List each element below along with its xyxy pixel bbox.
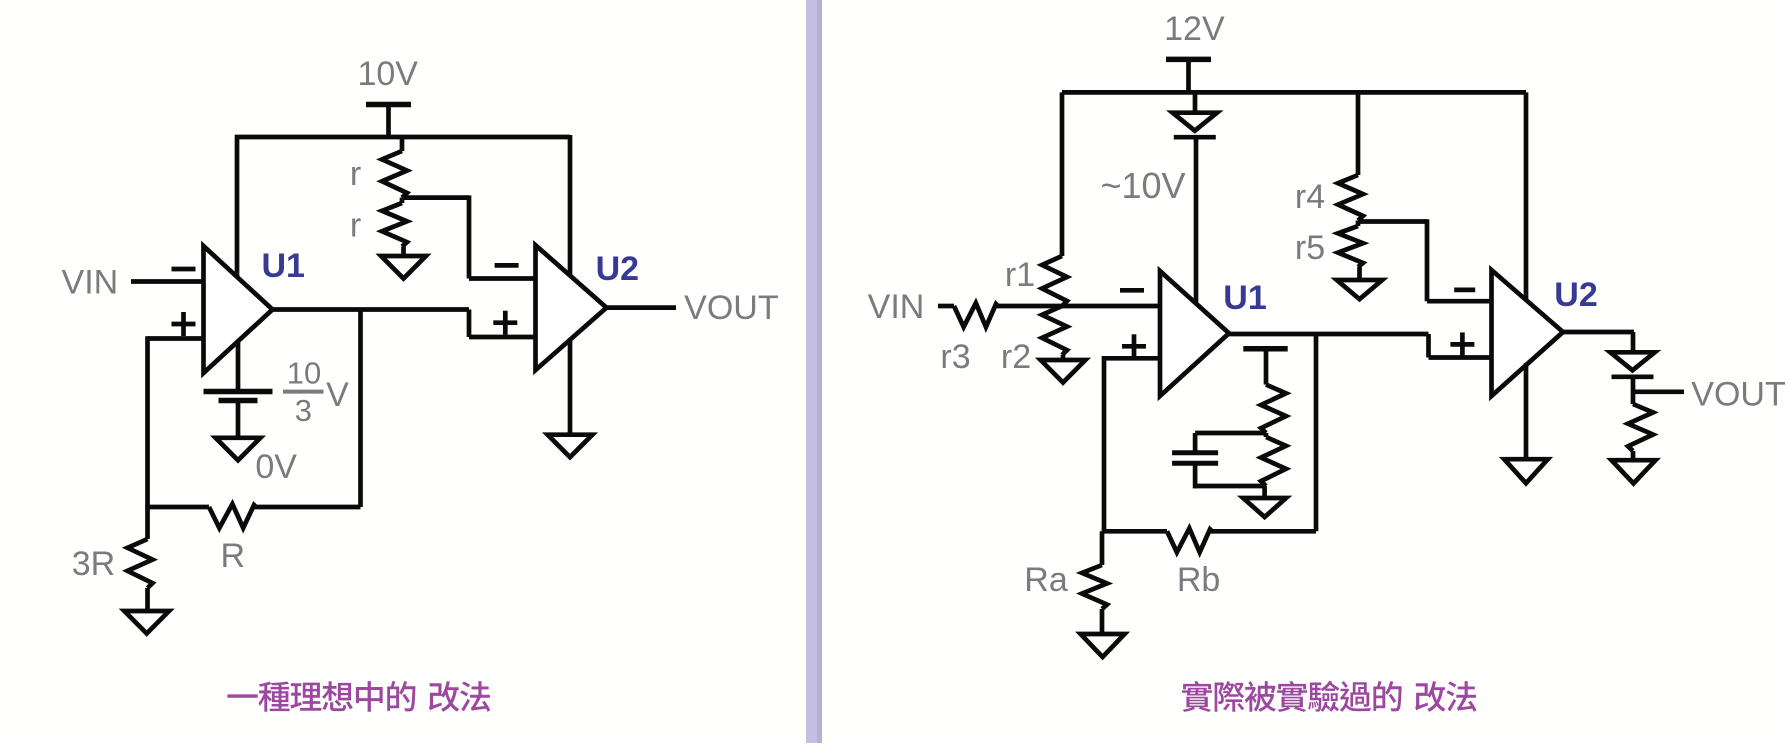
svg-text:U2: U2 <box>596 250 639 288</box>
svg-text:VIN: VIN <box>868 288 925 326</box>
svg-text:r: r <box>350 207 361 245</box>
svg-text:VOUT: VOUT <box>1691 376 1785 414</box>
svg-text:r1: r1 <box>1005 256 1035 294</box>
svg-text:r3: r3 <box>940 338 970 376</box>
svg-text:~10V: ~10V <box>1100 165 1185 206</box>
svg-text:U1: U1 <box>261 247 304 285</box>
svg-text:VOUT: VOUT <box>684 289 778 327</box>
svg-text:VIN: VIN <box>62 264 119 302</box>
svg-text:3R: 3R <box>72 545 115 583</box>
svg-text:r: r <box>350 155 361 193</box>
svg-text:3: 3 <box>295 393 312 428</box>
svg-text:Ra: Ra <box>1024 561 1068 599</box>
svg-text:Rb: Rb <box>1177 561 1220 599</box>
svg-text:10: 10 <box>287 356 321 391</box>
svg-text:V: V <box>326 376 349 414</box>
svg-text:r2: r2 <box>1001 338 1031 376</box>
svg-text:0V: 0V <box>255 448 297 486</box>
svg-text:r4: r4 <box>1295 178 1325 216</box>
svg-text:U1: U1 <box>1223 279 1266 317</box>
svg-text:r5: r5 <box>1295 229 1325 267</box>
svg-text:12V: 12V <box>1164 10 1225 48</box>
svg-text:R: R <box>221 537 246 575</box>
svg-text:U2: U2 <box>1554 276 1597 314</box>
svg-text:10V: 10V <box>357 55 418 93</box>
